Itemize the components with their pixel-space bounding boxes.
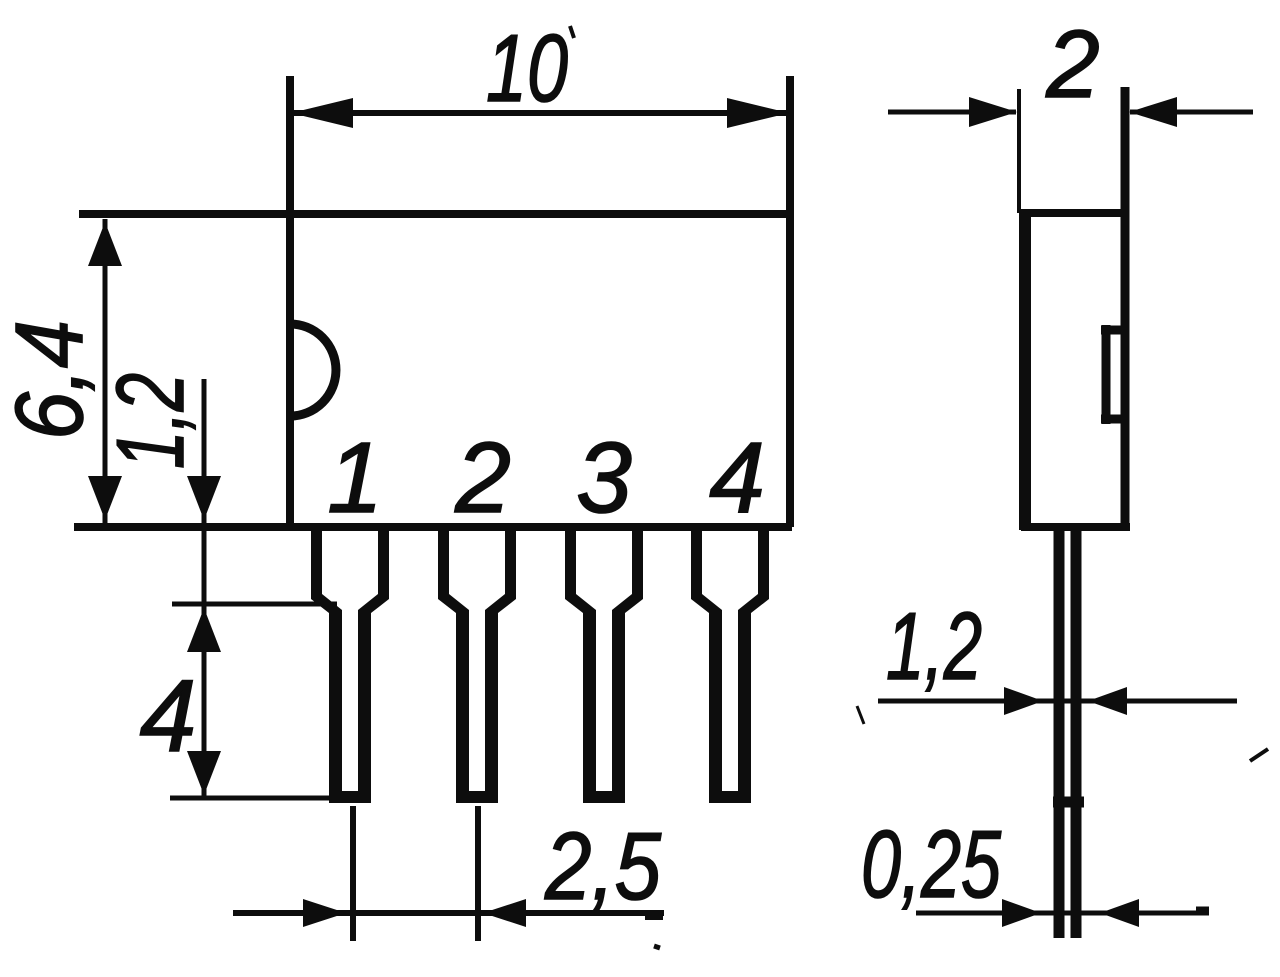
svg-text:4: 4 xyxy=(140,659,197,773)
svg-text:4: 4 xyxy=(709,422,765,534)
svg-text:2,5: 2,5 xyxy=(544,813,661,920)
svg-text:2: 2 xyxy=(1045,11,1099,118)
svg-text:6,4: 6,4 xyxy=(0,320,103,440)
svg-text:1,2: 1,2 xyxy=(97,373,204,469)
svg-text:10: 10 xyxy=(486,15,568,122)
svg-text:3: 3 xyxy=(576,422,632,534)
svg-text:1,2: 1,2 xyxy=(886,593,982,700)
svg-text:1: 1 xyxy=(327,422,383,534)
svg-text:2: 2 xyxy=(454,422,511,534)
svg-text:0,25: 0,25 xyxy=(861,811,1001,918)
